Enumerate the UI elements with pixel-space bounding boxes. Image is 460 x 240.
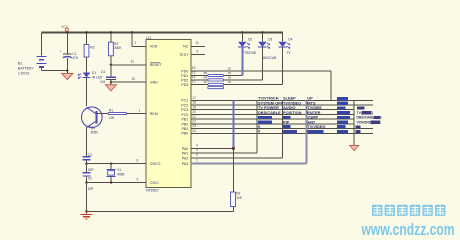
svg-text:RESET: RESET [150,63,163,67]
svg-text:IR LED: IR LED [92,75,103,79]
svg-text:1: 1 [139,108,141,112]
svg-text:21: 21 [192,115,196,119]
svg-text:PD1: PD1 [181,74,188,78]
svg-text:11: 11 [196,41,200,45]
svg-text:VCC: VCC [61,25,69,29]
svg-text:VTR/DVD: VTR/DVD [242,51,257,55]
svg-text:1: 1 [196,159,198,163]
svg-text:10: 10 [132,77,136,81]
svg-text:R3: R3 [90,46,94,50]
svg-text:PD2: PD2 [181,78,188,82]
svg-text:47U: 47U [72,56,79,60]
svg-text:NC: NC [183,45,189,49]
svg-text:PA2: PA2 [182,157,189,161]
svg-text:PD3: PD3 [181,83,188,87]
svg-text:10K: 10K [236,196,243,200]
svg-text:NT6520: NT6520 [146,189,159,193]
svg-text:300K: 300K [114,46,122,50]
svg-text:OSCO: OSCO [150,162,161,166]
svg-text:D4: D4 [288,38,292,42]
svg-text:5: 5 [197,50,199,54]
svg-text:www.cndzz.com: www.cndzz.com [361,221,455,239]
svg-text:PB1: PB1 [182,118,189,122]
svg-text:20P: 20P [88,168,94,172]
svg-text:GND: GND [150,81,158,85]
svg-text:20P: 20P [88,187,94,191]
svg-text:PA0: PA0 [182,147,189,151]
svg-text:100: 100 [109,116,115,120]
svg-text:22: 22 [192,120,196,124]
svg-text:): ) [380,120,381,124]
svg-text:C3: C3 [88,153,92,157]
svg-text:B1: B1 [18,62,22,66]
svg-text:OSCI: OSCI [150,181,159,185]
svg-text:2: 2 [196,153,198,157]
svg-text:1.5VX2: 1.5VX2 [18,72,30,76]
svg-text:D2: D2 [248,38,252,42]
svg-text:PC1: PC1 [181,99,188,103]
svg-text:PB2: PB2 [182,122,189,126]
svg-text:15: 15 [192,70,196,74]
svg-text:DBS/CAB: DBS/CAB [262,56,277,60]
svg-text:TV(: TV( [357,111,363,115]
svg-text:20: 20 [192,110,196,114]
svg-text:0: 0 [258,129,260,134]
svg-text:4: 4 [196,144,198,148]
svg-text:POSITION: POSITION [283,110,302,115]
svg-text:PC3: PC3 [181,108,188,112]
svg-text:C2: C2 [88,176,92,180]
svg-text:R7: R7 [204,80,208,84]
svg-text:PC2: PC2 [181,103,188,107]
svg-text:C4: C4 [101,70,105,74]
svg-text:PIP: PIP [283,119,290,124]
svg-text:U1: U1 [147,36,152,40]
svg-text:PC0: PC0 [181,113,188,117]
svg-text:18: 18 [228,80,232,84]
svg-text:17: 17 [192,96,196,100]
svg-text:9: 9 [137,177,139,181]
svg-text:REM: REM [150,112,158,116]
svg-text:): ) [381,116,382,120]
svg-text:PA3: PA3 [182,162,189,166]
svg-text:+: + [59,50,61,54]
svg-text:455K: 455K [117,172,125,176]
svg-text:TEST: TEST [179,53,189,57]
svg-text:18: 18 [192,101,196,105]
svg-text:12: 12 [131,60,135,64]
svg-text:TV/VIDEO: TV/VIDEO [307,124,325,129]
svg-text:PB0: PB0 [182,132,189,136]
svg-text:PD0: PD0 [181,69,188,73]
svg-text:104: 104 [100,80,106,84]
svg-text:R2: R2 [236,192,240,196]
svg-text:24: 24 [192,129,196,133]
svg-text:PB3: PB3 [182,127,189,131]
svg-text:R5: R5 [204,71,208,75]
svg-text:8: 8 [137,159,139,163]
svg-text:R6: R6 [204,76,208,80]
svg-text:PA1: PA1 [182,152,189,156]
svg-text:): ) [372,111,373,115]
svg-text:16: 16 [192,66,196,70]
svg-text:3: 3 [196,148,198,152]
svg-text:18: 18 [228,75,232,79]
svg-text:18: 18 [228,67,232,71]
svg-text:BATTERY: BATTERY [18,67,34,71]
svg-text:19: 19 [192,105,196,109]
svg-text:D3: D3 [268,38,272,42]
svg-text:8050: 8050 [91,130,98,134]
svg-text:13: 13 [192,79,196,83]
svg-text:18: 18 [228,71,232,75]
svg-text:2: 2 [135,41,137,45]
svg-text:R1: R1 [109,108,113,112]
svg-text:14: 14 [192,75,196,79]
svg-text:VDD: VDD [150,45,158,49]
svg-text:23: 23 [192,124,196,128]
svg-text:DBS/CABLE: DBS/CABLE [258,110,281,115]
